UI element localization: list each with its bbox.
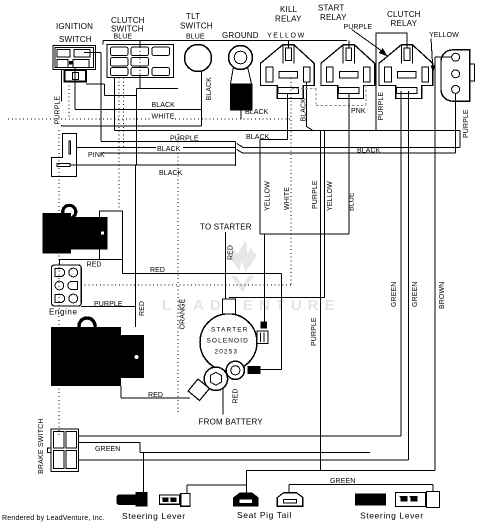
- svg-text:RED: RED: [148, 392, 163, 399]
- svg-text:BLACK: BLACK: [245, 109, 269, 116]
- wire dotted brake: [58, 130, 60, 436]
- wire ignition pin2: [84, 52, 101, 141]
- svg-text:BLUE: BLUE: [349, 192, 356, 211]
- svg-text:Rendered by LeadVenture, Inc.: Rendered by LeadVenture, Inc.: [2, 515, 105, 522]
- wire clutch switch left: [115, 78, 461, 131]
- svg-text:20253: 20253: [215, 349, 239, 356]
- wire battery red: [121, 386, 190, 398]
- wire red bus: [122, 274, 281, 370]
- wire connector j1 purple: [459, 131, 461, 148]
- svg-text:BLUE: BLUE: [186, 34, 205, 41]
- clutch relay K3: [379, 10, 433, 99]
- svg-text:BLACK: BLACK: [206, 77, 213, 101]
- svg-text:BLACK: BLACK: [159, 170, 183, 177]
- wire white dotted bus: [8, 118, 291, 120]
- svg-text:BRAKE SWITCH: BRAKE SWITCH: [38, 418, 45, 474]
- svg-text:PURPLE: PURPLE: [55, 96, 62, 125]
- wire battery bus: [79, 91, 402, 436]
- wire ignition purple: [62, 70, 202, 126]
- wire clutch relay coil purple: [376, 33, 407, 131]
- tilt switch: [180, 12, 213, 72]
- wire engine red: [60, 260, 100, 265]
- wire green brake: [79, 443, 371, 493]
- wire pink: [77, 146, 461, 148]
- svg-text:BLACK: BLACK: [157, 146, 181, 153]
- wire black low: [70, 164, 236, 166]
- svg-text:WHITE: WHITE: [152, 114, 175, 121]
- wire ignition plug: [86, 84, 136, 95]
- wire ignition pin black: [75, 68, 202, 110]
- wire coil box: [121, 260, 123, 274]
- connector LC pink: [52, 134, 105, 177]
- brake switch: [38, 418, 79, 474]
- steering lever right: [355, 492, 440, 521]
- connector J1 right: [429, 32, 474, 101]
- svg-text:BLACK: BLACK: [152, 102, 176, 109]
- svg-text:START: START: [318, 4, 344, 13]
- wire ground black: [240, 110, 242, 119]
- wire ignition dotted: [68, 82, 70, 120]
- wire brown: [434, 57, 436, 470]
- svg-text:Steering Lever: Steering Lever: [122, 511, 186, 521]
- svg-text:BLACK: BLACK: [246, 134, 270, 141]
- svg-text:BLACK: BLACK: [301, 98, 308, 122]
- svg-text:SWITCH: SWITCH: [59, 35, 92, 44]
- wire clutch switch dotted 2: [119, 78, 124, 212]
- battery (black): [51, 318, 144, 386]
- wire connector j1 bottom: [455, 93, 457, 153]
- svg-text:IGNITION: IGNITION: [56, 22, 93, 31]
- wire red battery: [135, 165, 137, 327]
- svg-text:PURPLE: PURPLE: [378, 92, 385, 121]
- solenoid side terminal block: [261, 321, 267, 328]
- svg-text:RELAY: RELAY: [320, 13, 347, 22]
- wire kill relay right black: [307, 82, 314, 131]
- ignition switch connector plug: [65, 70, 87, 82]
- svg-text:GREEN: GREEN: [391, 282, 398, 307]
- svg-text:TLT: TLT: [186, 12, 200, 21]
- svg-text:BLACK: BLACK: [357, 147, 381, 154]
- svg-text:GREEN: GREEN: [412, 282, 419, 307]
- battery lug ring terminal: [188, 367, 227, 400]
- svg-text:RED: RED: [139, 301, 146, 316]
- ground: [222, 31, 269, 116]
- svg-text:FROM BATTERY: FROM BATTERY: [199, 418, 264, 427]
- svg-text:Engine: Engine: [49, 308, 78, 317]
- watermark logo: [231, 240, 258, 292]
- svg-text:CLUTCH: CLUTCH: [387, 10, 421, 19]
- svg-text:GROUND: GROUND: [222, 31, 259, 40]
- svg-text:RED: RED: [228, 245, 235, 260]
- wire top bus: [103, 41, 349, 48]
- svg-text:Seat Pig Tail: Seat Pig Tail: [237, 510, 292, 520]
- wire green brake 2: [79, 91, 409, 460]
- wire connector j1 top: [435, 56, 452, 58]
- svg-text:YELLOW: YELLOW: [327, 181, 334, 211]
- wire yellow 1: [259, 140, 261, 234]
- svg-text:SWITCH: SWITCH: [180, 22, 213, 31]
- svg-text:YELLOW: YELLOW: [265, 181, 272, 211]
- svg-text:PURPLE: PURPLE: [170, 135, 199, 142]
- svg-text:RED: RED: [233, 388, 240, 403]
- wire pink dashed: [292, 82, 366, 106]
- svg-text:RELAY: RELAY: [391, 19, 418, 28]
- svg-text:YELLOW: YELLOW: [429, 32, 459, 39]
- start relay K2: [318, 4, 386, 99]
- seat pigtail connector black: [233, 493, 259, 507]
- svg-text:PURPLE: PURPLE: [312, 180, 319, 209]
- wire green right: [289, 485, 433, 493]
- svg-text:YELLOW: YELLOW: [267, 33, 306, 40]
- svg-text:BROWN: BROWN: [439, 282, 446, 309]
- ignition coil (black): [43, 205, 123, 259]
- kill relay K1: [261, 5, 315, 99]
- wire kill relay black: [260, 94, 288, 140]
- steering lever left: [116, 492, 190, 521]
- svg-text:RELAY: RELAY: [275, 15, 302, 24]
- wire to starter red: [225, 232, 227, 299]
- svg-text:PURPLE: PURPLE: [94, 301, 123, 308]
- svg-text:ORANGE: ORANGE: [180, 298, 187, 329]
- svg-text:RED: RED: [87, 261, 102, 268]
- wire purple brown bottom: [247, 471, 435, 493]
- starter solenoid: [200, 299, 268, 371]
- svg-text:KILL: KILL: [280, 5, 298, 14]
- junction node: [236, 141, 243, 166]
- svg-text:GREEN: GREEN: [330, 478, 355, 485]
- svg-text:PURPLE: PURPLE: [344, 24, 373, 31]
- wire tilt switch black: [201, 71, 203, 126]
- engine connector J2: [49, 265, 81, 317]
- labels horizontal: [87, 102, 381, 485]
- wire clutch switch orange: [136, 76, 178, 166]
- svg-text:TO STARTER: TO STARTER: [200, 223, 252, 232]
- svg-text:SWITCH: SWITCH: [111, 25, 144, 34]
- wire purple bus: [101, 140, 236, 142]
- wire clutch switch dotted: [139, 47, 141, 76]
- seat pigtail connector white: [237, 493, 303, 520]
- svg-text:SOLENOID: SOLENOID: [207, 338, 249, 345]
- svg-text:STARTER: STARTER: [211, 327, 248, 334]
- svg-text:PURPLE: PURPLE: [311, 317, 318, 346]
- svg-text:BLUE: BLUE: [114, 34, 133, 41]
- svg-text:PNK: PNK: [351, 108, 366, 115]
- svg-text:WHITE: WHITE: [284, 187, 291, 210]
- wire blue: [260, 94, 349, 322]
- wire black mid: [101, 152, 456, 154]
- svg-text:PURPLE: PURPLE: [463, 109, 470, 138]
- clutch switch: [107, 16, 174, 78]
- svg-text:Steering Lever: Steering Lever: [360, 511, 424, 521]
- wire yellow 2: [229, 131, 325, 298]
- svg-text:RED: RED: [150, 267, 165, 274]
- wire solenoid red: [222, 388, 224, 415]
- labels vertical: [55, 77, 471, 404]
- wire white dotted kill: [81, 78, 291, 285]
- wire engine purple: [81, 306, 135, 308]
- svg-text:LEADVENTURE: LEADVENTURE: [162, 297, 341, 314]
- wire purple main: [319, 131, 321, 471]
- solenoid ring terminal: [226, 361, 260, 379]
- svg-text:GREEN: GREEN: [95, 446, 120, 453]
- wire steering tab: [187, 485, 247, 493]
- ignition switch: [53, 22, 96, 70]
